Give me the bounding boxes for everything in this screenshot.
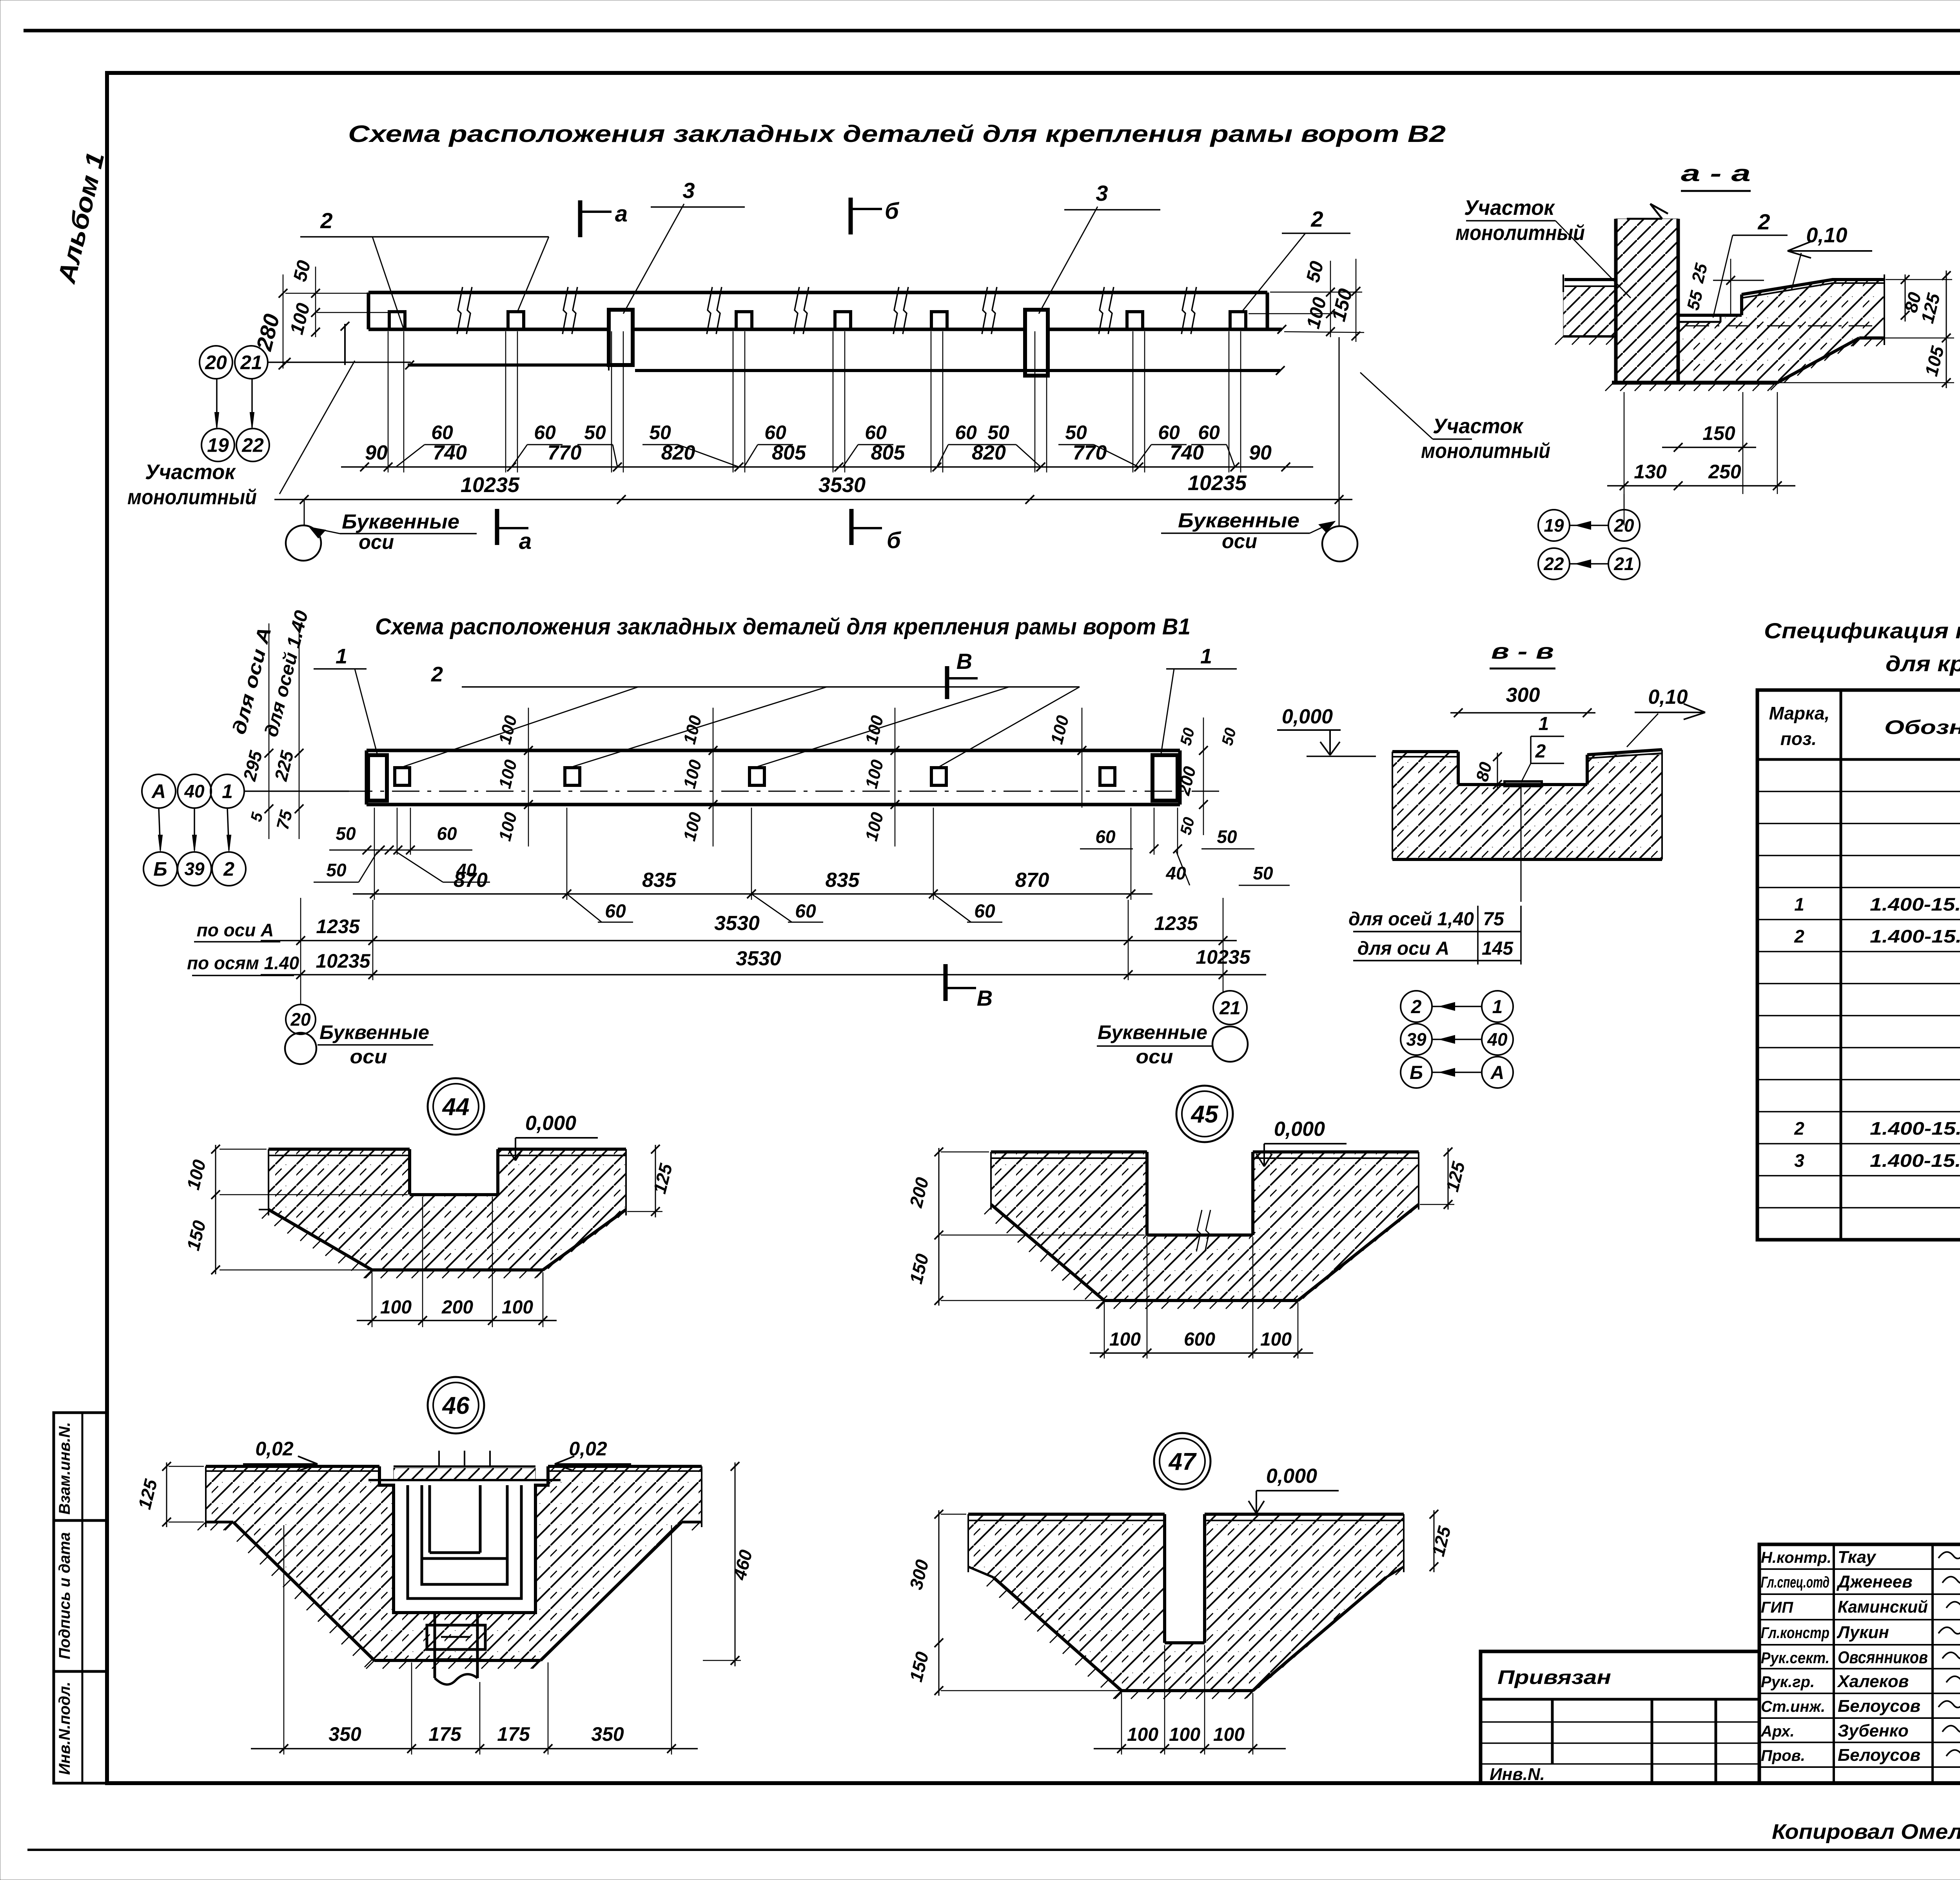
detail 45 <box>906 1086 1469 1359</box>
svg-text:100: 100 <box>1127 1724 1158 1745</box>
svg-text:по оси А: по оси А <box>197 920 274 940</box>
svg-text:100: 100 <box>380 1297 412 1318</box>
svg-text:200: 200 <box>441 1297 473 1318</box>
svg-text:2: 2 <box>431 663 443 686</box>
svg-text:Ст.инж.: Ст.инж. <box>1761 1698 1825 1715</box>
svg-text:Белоусов: Белоусов <box>1838 1746 1920 1765</box>
svg-text:0,02: 0,02 <box>569 1438 607 1460</box>
svg-text:0,000: 0,000 <box>1266 1465 1317 1488</box>
svg-text:39: 39 <box>184 859 205 879</box>
svg-text:50: 50 <box>584 421 606 443</box>
svg-text:Буквенные: Буквенные <box>1098 1021 1207 1043</box>
svg-text:Привязан: Привязан <box>1497 1666 1611 1688</box>
svg-text:1: 1 <box>1200 645 1212 668</box>
svg-text:20: 20 <box>205 352 227 374</box>
svg-text:10235: 10235 <box>316 950 370 972</box>
svg-text:2: 2 <box>1310 207 1323 231</box>
svg-text:3530: 3530 <box>736 947 781 970</box>
svg-text:1: 1 <box>1539 714 1549 734</box>
svg-text:1.400-15. В1.120 -17: 1.400-15. В1.120 -17 <box>1870 894 1960 914</box>
svg-text:Зубенко: Зубенко <box>1838 1721 1909 1740</box>
svg-text:Участок: Участок <box>145 460 236 484</box>
svg-text:60: 60 <box>974 901 995 922</box>
spec table <box>1757 690 1960 1240</box>
svg-text:Участок: Участок <box>1464 196 1555 220</box>
B2 strip <box>341 287 1286 376</box>
svg-text:Гл.констр: Гл.констр <box>1761 1624 1829 1642</box>
svg-text:В: В <box>956 649 972 674</box>
svg-text:Лукин: Лукин <box>1837 1623 1889 1642</box>
svg-text:60: 60 <box>1095 826 1116 847</box>
svg-text:оси: оси <box>350 1046 387 1068</box>
svg-text:350: 350 <box>591 1723 624 1745</box>
svg-text:0,000: 0,000 <box>1274 1118 1325 1141</box>
svg-text:50: 50 <box>1253 863 1273 883</box>
svg-text:для осей 1,40: для осей 1,40 <box>1348 909 1474 930</box>
svg-text:60: 60 <box>534 421 556 443</box>
svg-text:Инв.N.: Инв.N. <box>1490 1765 1545 1784</box>
svg-text:Дженеев: Дженеев <box>1836 1572 1913 1591</box>
svg-text:Б: Б <box>153 858 167 880</box>
svg-text:870: 870 <box>1015 869 1049 892</box>
svg-text:а: а <box>615 201 628 227</box>
svg-text:3530: 3530 <box>818 473 866 497</box>
svg-text:Участок: Участок <box>1433 414 1524 438</box>
svg-text:оси: оси <box>1136 1046 1173 1068</box>
svg-text:0,10: 0,10 <box>1806 223 1847 247</box>
svg-text:2: 2 <box>223 858 234 880</box>
svg-text:А: А <box>151 781 166 803</box>
B2 dimension chains <box>274 331 1357 561</box>
svg-text:Рук.сект.: Рук.сект. <box>1761 1649 1829 1667</box>
detail 47 <box>906 1433 1455 1755</box>
svg-text:Буквенные: Буквенные <box>319 1021 429 1043</box>
svg-text:50: 50 <box>1065 421 1087 443</box>
svg-text:45: 45 <box>1191 1101 1219 1128</box>
svg-text:Ткау: Ткау <box>1838 1548 1877 1567</box>
svg-text:39: 39 <box>1406 1029 1426 1050</box>
svg-text:100: 100 <box>1169 1724 1200 1745</box>
svg-text:монолитный: монолитный <box>1455 221 1585 245</box>
title block <box>1481 1544 1960 1786</box>
svg-text:0,10: 0,10 <box>1648 686 1688 708</box>
svg-text:0,02: 0,02 <box>255 1438 294 1460</box>
svg-text:2: 2 <box>1411 997 1422 1017</box>
svg-text:Каминский: Каминский <box>1838 1597 1928 1617</box>
svg-text:46: 46 <box>442 1392 470 1419</box>
svg-text:150: 150 <box>1702 422 1735 444</box>
svg-text:б: б <box>887 528 902 553</box>
svg-text:Гл.спец.отд: Гл.спец.отд <box>1761 1574 1829 1591</box>
svg-text:130: 130 <box>1634 461 1667 483</box>
svg-text:44: 44 <box>442 1093 470 1121</box>
svg-text:а: а <box>519 529 532 554</box>
svg-text:б: б <box>885 198 900 224</box>
svg-text:2: 2 <box>1794 1118 1804 1139</box>
svg-text:а - а: а - а <box>1681 161 1751 186</box>
svg-text:175: 175 <box>428 1723 462 1745</box>
svg-text:75: 75 <box>1483 909 1504 930</box>
svg-text:22: 22 <box>1543 554 1564 574</box>
svg-text:Рук.гр.: Рук.гр. <box>1761 1673 1815 1691</box>
svg-text:20: 20 <box>290 1009 311 1030</box>
svg-text:2: 2 <box>1794 926 1804 946</box>
svg-text:монолитный: монолитный <box>1421 439 1550 463</box>
svg-text:350: 350 <box>328 1723 361 1745</box>
svg-text:2: 2 <box>1757 209 1770 234</box>
svg-text:835: 835 <box>642 869 677 892</box>
svg-text:Инв.N.подл.: Инв.N.подл. <box>56 1682 73 1775</box>
svg-text:Схема расположения закладных д: Схема расположения закладных деталей для… <box>375 614 1191 639</box>
svg-text:2: 2 <box>320 208 332 233</box>
svg-text:Буквенные: Буквенные <box>342 510 459 533</box>
svg-text:1: 1 <box>336 645 347 668</box>
svg-text:60: 60 <box>795 901 816 922</box>
svg-text:250: 250 <box>1708 461 1741 483</box>
svg-text:60: 60 <box>1198 421 1220 443</box>
svg-text:10235: 10235 <box>461 473 520 497</box>
svg-text:20: 20 <box>1613 515 1634 536</box>
svg-text:19: 19 <box>207 434 229 456</box>
section a-a <box>1455 161 1960 579</box>
svg-text:60: 60 <box>605 901 626 922</box>
svg-text:1.400-15.В1. 110 -02: 1.400-15.В1. 110 -02 <box>1870 926 1960 946</box>
svg-text:3530: 3530 <box>714 912 760 935</box>
svg-text:Халеков: Халеков <box>1837 1672 1909 1691</box>
svg-text:10235: 10235 <box>1188 471 1247 495</box>
svg-text:870: 870 <box>454 869 488 892</box>
svg-text:Схема расположения закладных д: Схема расположения закладных деталей для… <box>348 121 1446 147</box>
svg-text:Б: Б <box>1410 1063 1423 1083</box>
svg-text:175: 175 <box>497 1723 530 1745</box>
svg-text:21: 21 <box>240 352 262 374</box>
svg-text:1235: 1235 <box>1154 912 1198 934</box>
svg-text:50: 50 <box>336 823 356 844</box>
svg-text:1.400-15. В1. 120-29: 1.400-15. В1. 120-29 <box>1870 1150 1960 1171</box>
svg-text:60: 60 <box>955 421 977 443</box>
svg-text:21: 21 <box>1613 554 1634 574</box>
svg-text:145: 145 <box>1482 938 1514 959</box>
svg-text:В: В <box>977 986 993 1010</box>
svg-text:1.400-15. В1. 110-02: 1.400-15. В1. 110-02 <box>1870 1118 1960 1139</box>
svg-text:60: 60 <box>865 421 887 443</box>
svg-text:А: А <box>1490 1063 1504 1083</box>
B1 labels <box>142 608 1290 1010</box>
svg-text:100: 100 <box>1213 1724 1245 1745</box>
svg-text:в - в: в - в <box>1491 639 1554 663</box>
svg-text:100: 100 <box>1109 1329 1141 1350</box>
svg-text:835: 835 <box>826 869 860 892</box>
svg-text:поз.: поз. <box>1780 728 1817 749</box>
svg-text:Марка,: Марка, <box>1769 703 1830 723</box>
svg-text:40: 40 <box>1487 1029 1508 1050</box>
svg-text:90: 90 <box>365 441 388 464</box>
svg-text:1: 1 <box>1492 997 1503 1017</box>
svg-text:1235: 1235 <box>316 915 360 937</box>
svg-text:Копировал Омельченко: Копировал Омельченко <box>1772 1820 1960 1844</box>
svg-text:2: 2 <box>1535 741 1546 762</box>
svg-text:3: 3 <box>682 178 695 203</box>
svg-text:Арх.: Арх. <box>1760 1723 1795 1740</box>
svg-text:600: 600 <box>1184 1329 1215 1350</box>
svg-text:ГИП: ГИП <box>1761 1599 1793 1616</box>
svg-text:3: 3 <box>1794 1150 1804 1171</box>
svg-text:50: 50 <box>649 421 671 443</box>
svg-text:300: 300 <box>1506 684 1540 707</box>
svg-text:Спецификация к схемам располож: Спецификация к схемам расположения закла… <box>1764 618 1960 643</box>
B1 strip <box>345 750 1223 805</box>
svg-text:монолитный: монолитный <box>127 485 257 509</box>
svg-text:60: 60 <box>431 421 453 443</box>
svg-text:для оси А: для оси А <box>1357 938 1449 959</box>
detail 46 <box>134 1377 756 1755</box>
svg-text:90: 90 <box>1249 441 1272 464</box>
svg-text:Подпись и дата: Подпись и дата <box>56 1532 73 1659</box>
svg-text:60: 60 <box>437 823 457 844</box>
left bottom stamp boxes <box>54 1413 107 1783</box>
svg-text:100: 100 <box>1260 1329 1292 1350</box>
svg-text:60: 60 <box>1158 421 1180 443</box>
svg-text:40: 40 <box>1165 863 1186 883</box>
svg-text:22: 22 <box>241 434 264 456</box>
svg-text:100: 100 <box>502 1297 533 1318</box>
svg-text:1: 1 <box>1794 894 1804 914</box>
svg-text:50: 50 <box>326 860 347 880</box>
section v-v <box>1277 639 1705 1088</box>
svg-text:3: 3 <box>1096 181 1108 205</box>
svg-text:Буквенные: Буквенные <box>1178 509 1299 532</box>
B2 leaders and labels <box>127 178 1550 554</box>
svg-text:19: 19 <box>1544 515 1564 536</box>
svg-text:для крепления рам ворот.: для крепления рам ворот. <box>1886 651 1960 676</box>
svg-text:1: 1 <box>222 781 233 803</box>
svg-text:50: 50 <box>1217 826 1237 847</box>
svg-text:0,000: 0,000 <box>1282 705 1333 728</box>
detail 44 <box>183 1078 676 1327</box>
svg-text:47: 47 <box>1168 1448 1197 1475</box>
svg-text:0,000: 0,000 <box>525 1112 576 1135</box>
svg-text:Пров.: Пров. <box>1761 1747 1805 1764</box>
svg-text:50: 50 <box>987 421 1009 443</box>
svg-text:21: 21 <box>1219 998 1240 1019</box>
svg-text:Н.контр.: Н.контр. <box>1761 1549 1831 1566</box>
svg-text:Взам.инв.N.: Взам.инв.N. <box>56 1422 73 1515</box>
svg-text:Обозначение: Обозначение <box>1884 716 1960 738</box>
B1 chains <box>187 808 1266 1068</box>
svg-text:40: 40 <box>184 781 205 801</box>
svg-text:Белоусов: Белоусов <box>1838 1697 1920 1716</box>
svg-text:Овсянников: Овсянников <box>1838 1648 1928 1667</box>
svg-text:60: 60 <box>764 421 786 443</box>
svg-text:по осям 1.40: по осям 1.40 <box>187 953 299 973</box>
